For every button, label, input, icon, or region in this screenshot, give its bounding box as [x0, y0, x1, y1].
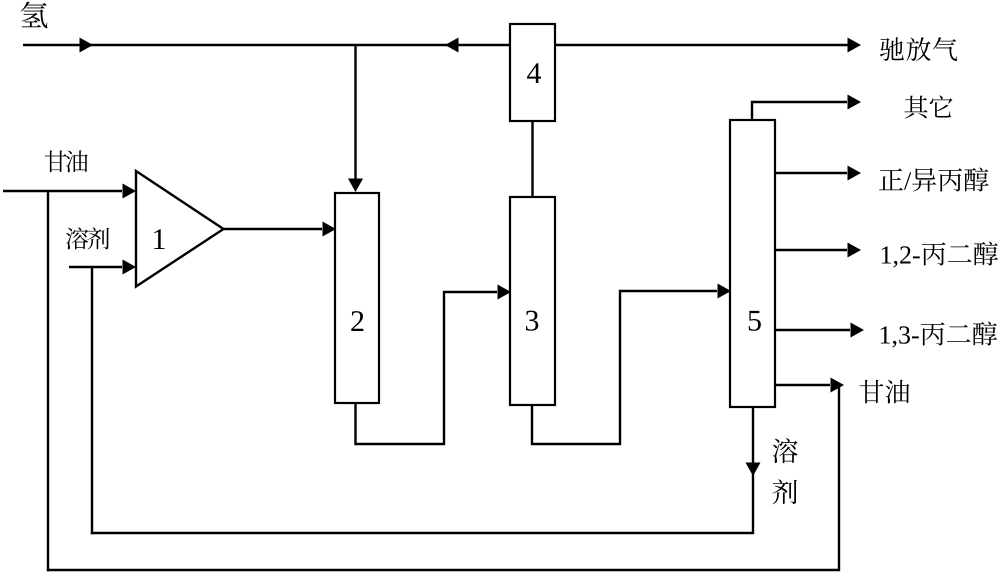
mixer 1 (triangle) [136, 171, 224, 287]
wire solvent feed into mixer 1 [69, 260, 136, 275]
wire solvent offtake and recycle loop [91, 407, 761, 533]
wire hydrogen drop to reactor 2 [348, 45, 363, 192]
reactor 2 (column) [335, 193, 379, 403]
label n/iso-propanol [879, 167, 988, 191]
label 2 [351, 311, 363, 331]
label 1,2-propanediol [882, 241, 998, 267]
wire 1,2-propanediol offtake [775, 243, 861, 258]
label 3 [526, 311, 538, 331]
wire recycle-to-header arrowhead (left) [445, 38, 459, 53]
label hydrogen (qing) [21, 2, 48, 29]
label 1,3-propanediol [881, 321, 997, 347]
label 4 [527, 63, 541, 83]
label purge gas (chifangqi) [880, 37, 957, 61]
wire others offtake from column 5 top [752, 95, 861, 122]
wire mixer 1 outlet to reactor 2 [224, 222, 336, 237]
wire n/iso-propanol offtake [775, 166, 861, 181]
separator 4 [510, 24, 555, 121]
label others (qita) [905, 96, 953, 119]
column 3 [510, 197, 555, 405]
wire solvent recycle riser (left inner) [91, 267, 93, 534]
wire hydrogen header line [23, 44, 848, 46]
wire hydrogen feed arrowhead [80, 38, 94, 53]
wire purge gas arrowhead [848, 38, 862, 53]
wire glycerol offtake and recycle loop [47, 378, 844, 571]
label glycerol feed (ganyou) [45, 150, 88, 172]
label solvent product (rongji, vertical) [772, 438, 797, 504]
label 1 (mixer number) [154, 229, 165, 249]
column 5 [730, 120, 775, 407]
label 5 [749, 311, 761, 331]
wire column 3 overhead to separator 4 [531, 121, 533, 197]
wire glycerol feed into mixer 1 [3, 184, 136, 199]
wire glycerol recycle riser (left outer) [47, 191, 49, 571]
label glycerol product (ganyou) [860, 380, 910, 404]
wire 1,3-propanediol offtake [775, 323, 864, 338]
label solvent feed (rongji) [66, 227, 109, 249]
wire column 3 bottoms to column 5 [532, 284, 731, 445]
wire reactor 2 bottoms to column 3 [356, 285, 512, 445]
